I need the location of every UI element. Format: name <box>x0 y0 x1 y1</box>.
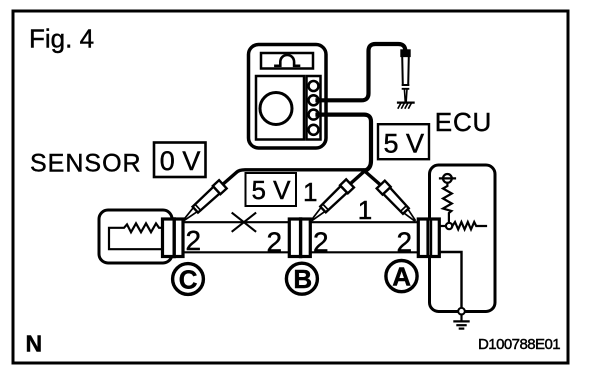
ECU box <box>430 165 496 312</box>
svg-text:N: N <box>26 331 43 357</box>
sensor internal resistor <box>109 223 163 249</box>
svg-text:A: A <box>392 262 411 292</box>
multimeter jack 1 <box>309 81 319 91</box>
svg-text:2: 2 <box>267 227 283 258</box>
multimeter jack panel <box>307 76 321 140</box>
multimeter jack 2 <box>309 95 319 105</box>
svg-text:1: 1 <box>358 195 372 225</box>
probe at connector B <box>308 179 354 223</box>
svg-text:D100788E01: D100788E01 <box>478 336 560 353</box>
node on ECU bottom edge <box>458 308 465 315</box>
multimeter display <box>261 53 313 69</box>
body ground hatch under probe <box>398 103 414 108</box>
resistor (horizontal) <box>452 222 486 229</box>
wire: junction to probe A <box>364 171 384 189</box>
multimeter jack 4 <box>309 125 319 135</box>
svg-text:0 V: 0 V <box>160 146 201 176</box>
harness wire C-B bottom <box>184 251 290 253</box>
harness wire B-A top <box>310 221 418 223</box>
connector C <box>163 219 184 257</box>
svg-text:5 V: 5 V <box>384 128 425 158</box>
svg-text:5 V: 5 V <box>252 175 292 205</box>
probe at connector A <box>377 181 419 225</box>
wire: junction to probe B <box>345 171 365 189</box>
multimeter dial <box>260 93 292 125</box>
svg-text:ECU: ECU <box>435 107 492 137</box>
resistor (pull-up, vertical) <box>443 183 452 223</box>
ground <box>454 315 468 329</box>
harness wire B-A bottom <box>310 251 418 253</box>
multimeter range symbol <box>275 55 299 66</box>
wire: connector A pin1 to node <box>440 225 446 227</box>
label box 5 V (ECU) <box>378 124 429 159</box>
break mark X <box>233 213 256 231</box>
svg-text:Fig. 4: Fig. 4 <box>29 24 94 54</box>
wire: jack3 down to junction <box>318 115 372 171</box>
connector A <box>418 219 439 257</box>
node B <box>286 263 317 294</box>
multimeter panel <box>256 76 304 140</box>
svg-text:C: C <box>179 264 198 294</box>
probe at connector C <box>180 180 226 224</box>
wire: connector A pin2 to ground <box>440 252 462 308</box>
svg-text:2: 2 <box>186 225 202 256</box>
label box 0 V <box>154 143 206 178</box>
multimeter jack 3 <box>309 110 319 120</box>
wire: junction horizontal run <box>218 170 366 189</box>
power terminal <box>440 174 455 183</box>
sensor body <box>99 210 172 263</box>
wire: jack2 to ground probe <box>318 44 406 100</box>
svg-text:1: 1 <box>303 177 317 207</box>
multimeter body <box>249 45 327 149</box>
node A <box>386 261 417 292</box>
svg-text:2: 2 <box>397 227 413 258</box>
svg-text:2: 2 <box>313 227 329 258</box>
ground probe <box>401 50 409 101</box>
svg-text:B: B <box>293 264 312 294</box>
node (pin 1 inside ECU) <box>446 223 452 229</box>
connector B <box>289 219 310 257</box>
node C <box>173 264 204 295</box>
harness wire C-B top <box>184 221 290 223</box>
label box 5 V (middle) <box>246 173 297 206</box>
svg-text:SENSOR: SENSOR <box>30 150 142 178</box>
